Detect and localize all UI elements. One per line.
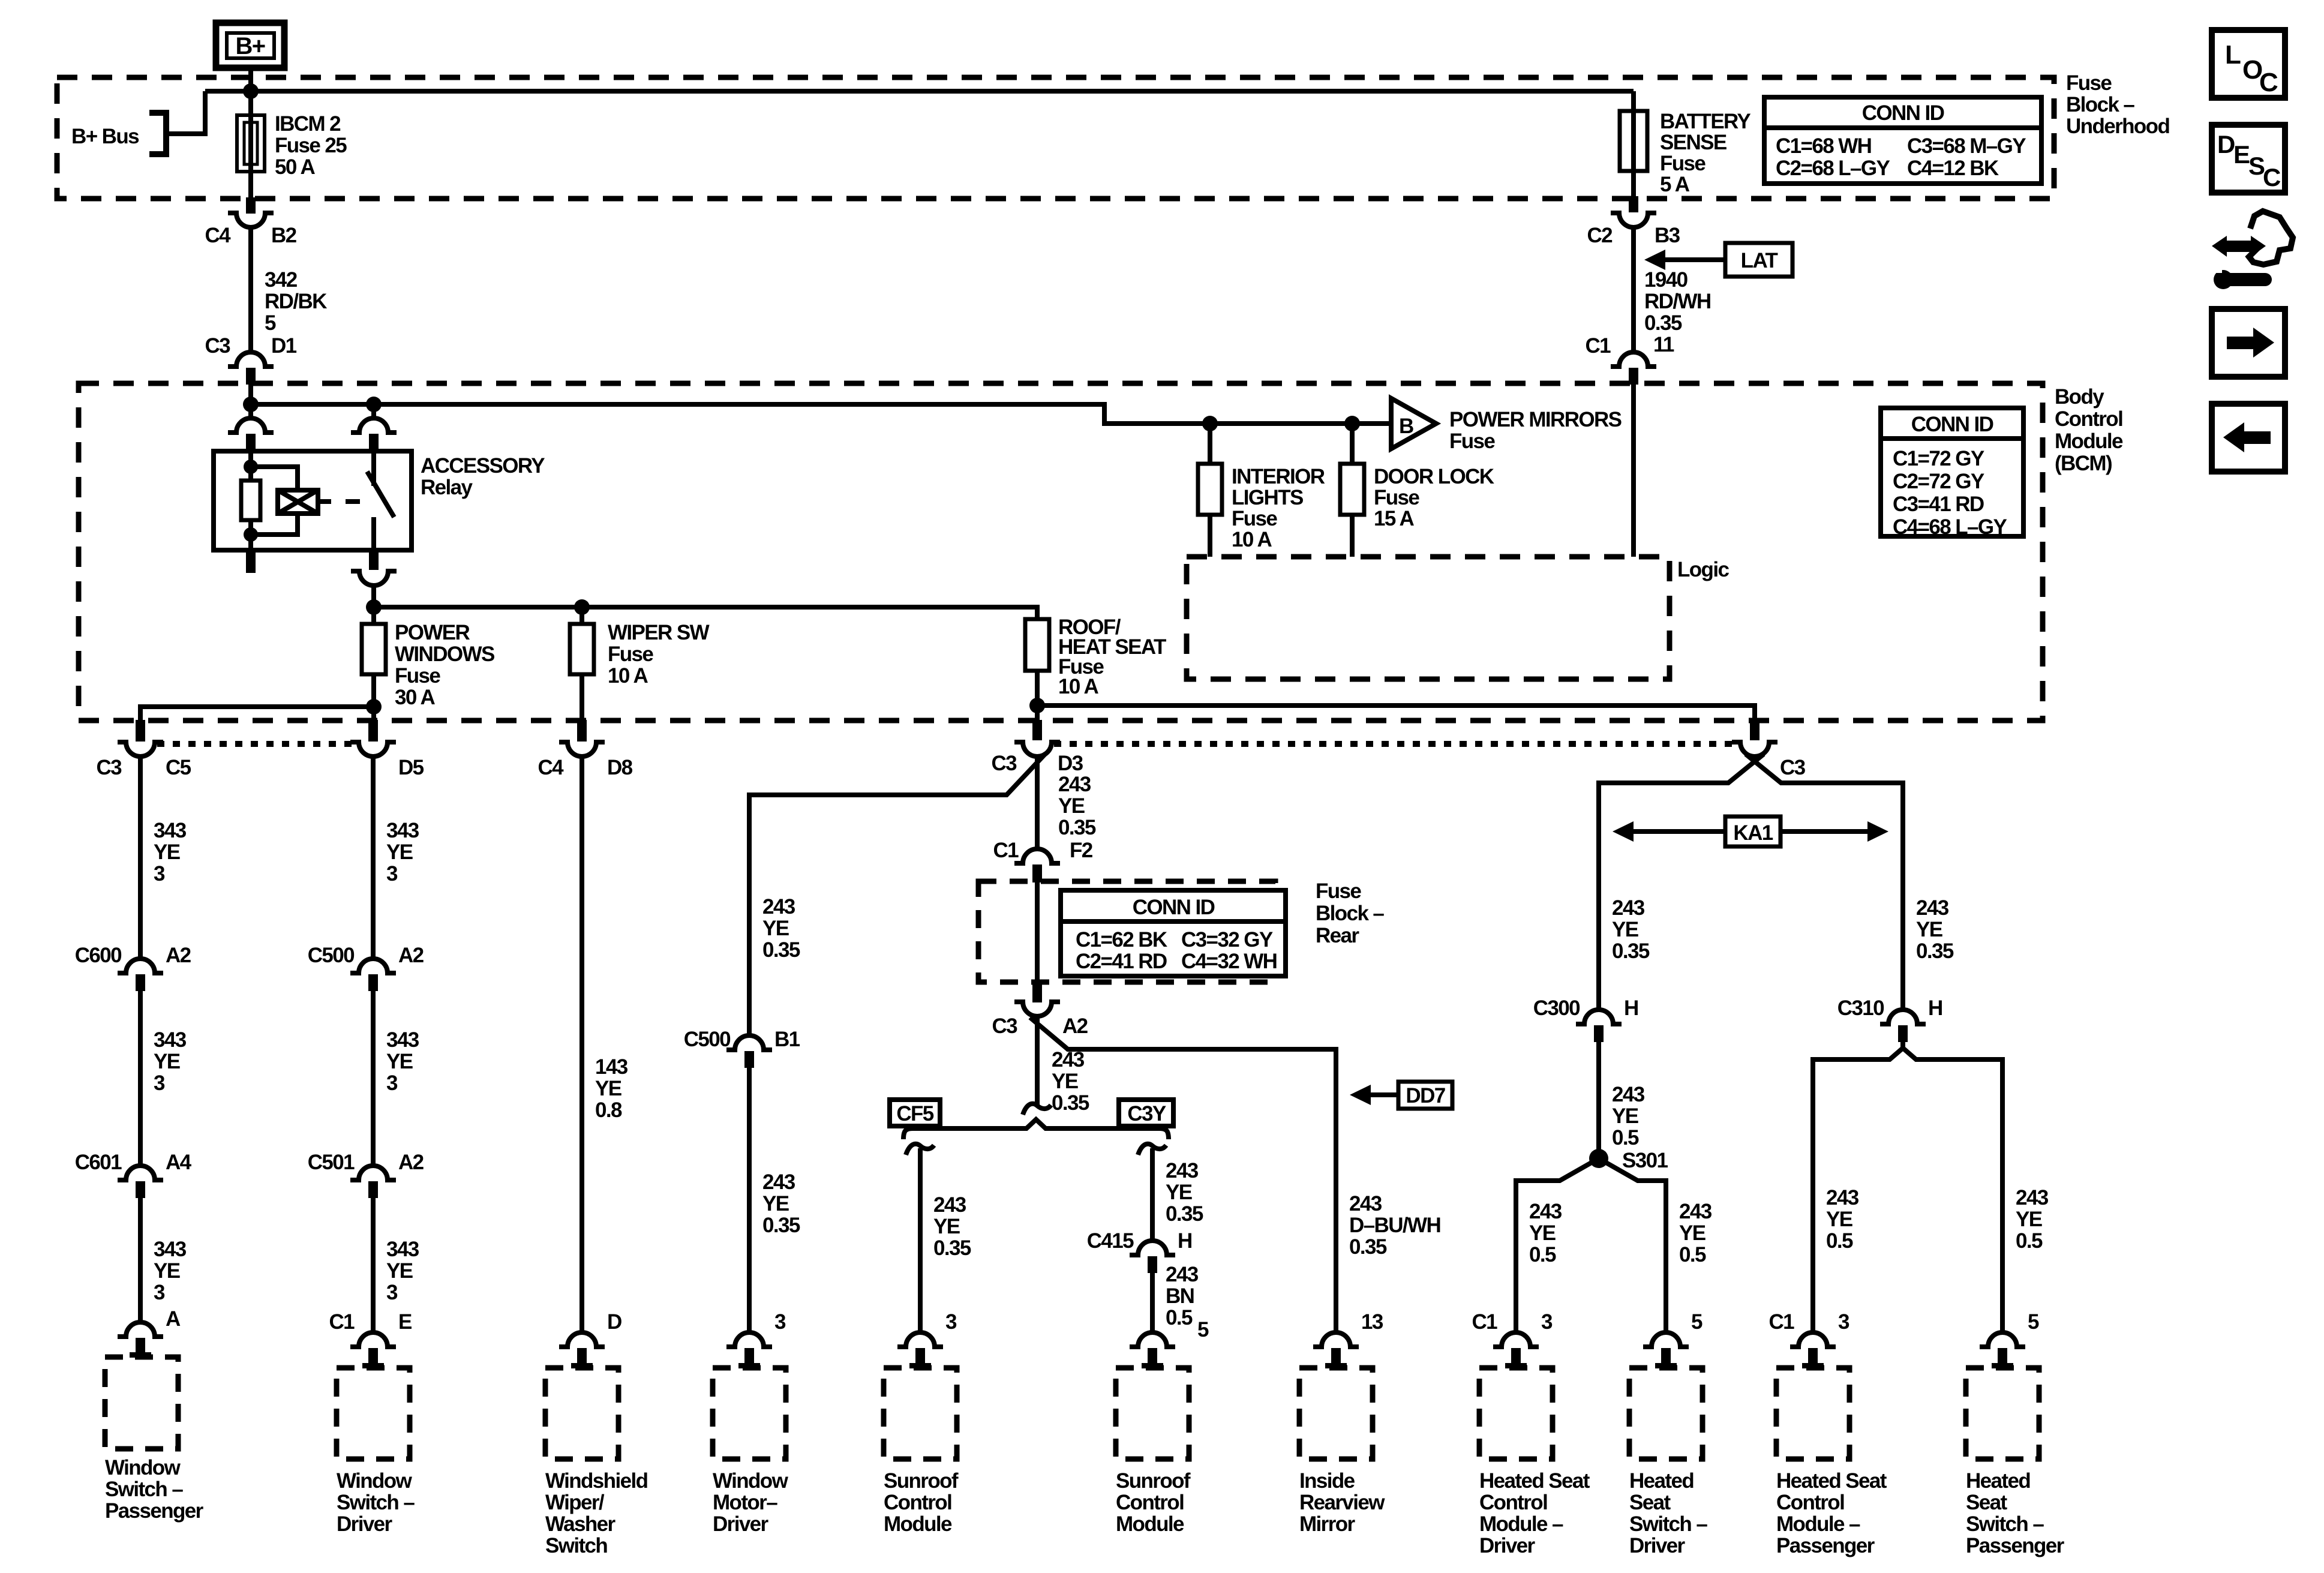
svg-text:3: 3 (154, 1071, 165, 1095)
svg-text:POWER MIRRORS: POWER MIRRORS (1449, 408, 1622, 431)
sunroof control module 1 box (884, 1368, 957, 1459)
relay switch blade (367, 472, 394, 517)
svg-text:WINDOWS: WINDOWS (395, 643, 494, 666)
wire relay coil feed (248, 404, 253, 419)
svg-text:C3: C3 (205, 334, 230, 358)
svg-text:3: 3 (1838, 1310, 1849, 1334)
svg-text:C1: C1 (993, 839, 1019, 862)
wire C310 fork (1813, 1042, 2002, 1334)
wire wiper fuse out (580, 674, 584, 720)
svg-text:YE: YE (1679, 1221, 1706, 1245)
wire roof fuse out (1035, 671, 1040, 720)
wire 343 YE passenger seg3 (138, 1198, 143, 1323)
svg-text:342: 342 (265, 268, 298, 292)
node power windows branch (366, 699, 382, 715)
svg-text:YE: YE (762, 917, 789, 940)
svg-text:30 A: 30 A (395, 686, 436, 709)
KA1 arrow left (1634, 829, 1725, 834)
connector C3/C5 pin stub (136, 720, 145, 742)
svg-text:YE: YE (1916, 918, 1942, 941)
wire sunroof module 2 upper (1150, 1148, 1155, 1241)
splice S301 (1589, 1149, 1608, 1168)
wire 243 YE D3 drop (1035, 757, 1040, 849)
svg-text:A4: A4 (166, 1151, 192, 1174)
connector pin 13 mirror (1313, 1332, 1359, 1347)
svg-text:C2=68 L–GY: C2=68 L–GY (1776, 157, 1890, 180)
svg-text:B: B (1399, 415, 1413, 438)
svg-text:243: 243 (1612, 896, 1645, 920)
svg-text:D8: D8 (607, 756, 633, 779)
svg-text:Window: Window (713, 1469, 789, 1493)
svg-text:C3: C3 (992, 1014, 1017, 1038)
svg-text:YE: YE (386, 1259, 413, 1283)
svg-text:Window: Window (337, 1469, 413, 1493)
wire window motor lower (747, 1068, 752, 1334)
svg-text:WIPER SW: WIPER SW (608, 621, 710, 644)
svg-text:C500: C500 (308, 944, 355, 967)
svg-text:BN: BN (1166, 1284, 1194, 1308)
connector C3/D3 (1014, 742, 1060, 757)
DD7 box (1398, 1082, 1452, 1109)
wire 243 BN sunroof 2 (1150, 1273, 1155, 1334)
connector C601/A4 (118, 1166, 163, 1180)
svg-text:KA1: KA1 (1733, 821, 1773, 845)
icon LOC box (2212, 30, 2285, 98)
svg-text:YE: YE (1612, 1104, 1638, 1128)
svg-text:C4: C4 (205, 224, 231, 247)
svg-text:Fuse: Fuse (1232, 507, 1277, 530)
svg-text:CONN ID: CONN ID (1862, 101, 1944, 125)
connector group dotted link right (1054, 741, 1738, 747)
icon wrench (2214, 270, 2233, 289)
svg-text:C310: C310 (1837, 996, 1884, 1020)
svg-text:3: 3 (1541, 1310, 1553, 1334)
svg-text:Fuse: Fuse (1660, 152, 1706, 175)
window switch passenger box (105, 1357, 178, 1449)
svg-text:C300: C300 (1533, 996, 1580, 1020)
svg-text:Control: Control (884, 1491, 951, 1514)
wire door lock feed (1350, 424, 1355, 464)
wire battery sense drop (1631, 91, 1636, 197)
icon back arrow box (2212, 404, 2285, 472)
wire 243 YE 0.5 to splice (1596, 1042, 1601, 1158)
connector C1/F2 (1014, 849, 1060, 863)
connector C3/D5 pin stub (368, 720, 378, 742)
svg-text:343: 343 (386, 1238, 419, 1261)
inside rearview mirror box (1299, 1368, 1373, 1459)
svg-text:5: 5 (1691, 1310, 1703, 1334)
fuse BATTERY SENSE (1620, 111, 1647, 171)
brace split (903, 1119, 1169, 1139)
connector C300/H (1576, 1010, 1622, 1024)
svg-text:C3: C3 (96, 756, 122, 779)
svg-text:Module: Module (1116, 1512, 1184, 1536)
node interior lights tap (1202, 416, 1218, 431)
svg-text:H: H (1178, 1229, 1192, 1253)
svg-text:0.35: 0.35 (1349, 1235, 1387, 1259)
svg-text:S301: S301 (1622, 1149, 1668, 1172)
svg-text:0.35: 0.35 (1052, 1091, 1089, 1115)
window switch driver box (337, 1368, 410, 1459)
svg-text:C2=41 RD: C2=41 RD (1076, 950, 1167, 973)
svg-text:243: 243 (1529, 1200, 1562, 1223)
wire 343 YE driver seg2 (371, 991, 376, 1166)
connector C600/A2 (118, 959, 163, 973)
wire 143 YE wiper (580, 757, 584, 1334)
svg-text:1940: 1940 (1644, 268, 1688, 292)
heated seat control module passenger box (1776, 1368, 1849, 1459)
svg-text:Sunroof: Sunroof (1116, 1469, 1191, 1493)
svg-text:Driver: Driver (1629, 1534, 1686, 1557)
svg-text:C3: C3 (1780, 756, 1806, 779)
svg-text:Fuse: Fuse (1449, 430, 1495, 453)
svg-text:Driver: Driver (1479, 1534, 1536, 1557)
svg-text:Switch –: Switch – (337, 1491, 415, 1514)
connector C3/C5 (118, 742, 163, 757)
svg-text:3: 3 (386, 1071, 398, 1095)
svg-text:Control: Control (2055, 407, 2122, 431)
svg-text:A2: A2 (1062, 1014, 1088, 1038)
wire relay switch feed (371, 404, 376, 419)
svg-text:5: 5 (2028, 1310, 2039, 1334)
svg-text:343: 343 (386, 819, 419, 842)
svg-text:LIGHTS: LIGHTS (1232, 486, 1303, 509)
CF5 box (890, 1100, 940, 1126)
svg-text:D: D (607, 1310, 621, 1334)
svg-text:Switch –: Switch – (1966, 1512, 2044, 1536)
svg-text:YE: YE (1826, 1208, 1852, 1231)
wire interior lights out (1208, 515, 1212, 557)
svg-text:YE: YE (595, 1077, 621, 1100)
svg-text:243: 243 (762, 895, 795, 918)
svg-text:Block –: Block – (1316, 902, 1384, 925)
svg-text:Underhood: Underhood (2066, 115, 2169, 138)
connector relay coil (228, 418, 274, 433)
svg-text:C4=12 BK: C4=12 BK (1907, 157, 1999, 180)
svg-text:Seat: Seat (1966, 1491, 2007, 1514)
svg-text:3: 3 (386, 862, 398, 885)
svg-text:Motor–: Motor– (713, 1491, 777, 1514)
node roof fuse branch (1029, 698, 1045, 713)
conn id table BCM (1881, 408, 2023, 536)
svg-text:0.35: 0.35 (1058, 816, 1096, 839)
svg-text:C1=62 BK: C1=62 BK (1076, 928, 1167, 951)
connector C3/A2 (1014, 1002, 1060, 1016)
svg-text:0.5: 0.5 (1612, 1126, 1639, 1149)
wire A2 branch to mirror (1030, 1017, 1336, 1334)
wire 343 YE passenger seg2 (138, 991, 143, 1166)
svg-text:Heated Seat: Heated Seat (1776, 1469, 1887, 1493)
wire B+ drop (248, 68, 253, 198)
svg-text:0.8: 0.8 (595, 1098, 622, 1122)
svg-text:YE: YE (154, 840, 180, 864)
relay coil exit stub (246, 550, 256, 573)
connector relay output (351, 571, 397, 586)
svg-text:Fuse: Fuse (608, 643, 653, 666)
connector pin D (559, 1332, 605, 1347)
svg-text:C: C (2263, 163, 2281, 191)
svg-text:Control: Control (1116, 1491, 1184, 1514)
svg-text:Wiper/: Wiper/ (545, 1491, 605, 1514)
svg-text:243: 243 (1826, 1186, 1859, 1209)
connector C2/B3 pin stub (1629, 196, 1638, 212)
wire relay output (371, 586, 376, 624)
svg-text:243: 243 (1166, 1263, 1199, 1286)
connector C3 group dotted link left (157, 741, 356, 747)
svg-text:0.35: 0.35 (1612, 939, 1650, 963)
node bus left (243, 397, 259, 412)
svg-text:C4: C4 (538, 756, 564, 779)
wire battery sense into BCM logic (1631, 385, 1636, 557)
wire power windows fuse out (371, 674, 376, 720)
svg-text:C3=32 GY: C3=32 GY (1181, 928, 1273, 951)
svg-text:Sunroof: Sunroof (884, 1469, 959, 1493)
connector C310/H (1880, 1010, 1926, 1024)
svg-text:0.35: 0.35 (933, 1236, 971, 1260)
svg-text:C4=68 L–GY: C4=68 L–GY (1893, 515, 2007, 539)
connector relay switch (351, 418, 397, 433)
svg-text:0.35: 0.35 (762, 938, 800, 962)
svg-text:D1: D1 (271, 334, 297, 358)
svg-text:243: 243 (1349, 1192, 1382, 1215)
connector pin C1/E (350, 1332, 396, 1347)
node relay coil bottom (244, 527, 258, 542)
svg-text:Module: Module (2055, 430, 2123, 453)
svg-text:B1: B1 (774, 1028, 800, 1051)
wire 343 YE driver seg1 (371, 757, 376, 959)
svg-text:Rear: Rear (1316, 924, 1359, 947)
svg-text:3: 3 (154, 862, 165, 885)
svg-text:Passenger: Passenger (1966, 1534, 2065, 1557)
heated seat switch passenger box (1966, 1368, 2039, 1459)
fuse INTERIOR LIGHTS (1198, 464, 1222, 515)
wire branch to C5 (140, 707, 374, 720)
svg-text:C501: C501 (308, 1151, 355, 1174)
fuse POWER WINDOWS (362, 624, 386, 674)
svg-text:B3: B3 (1655, 224, 1680, 247)
svg-text:0.35: 0.35 (1644, 311, 1682, 335)
svg-text:D–BU/WH: D–BU/WH (1349, 1214, 1440, 1237)
svg-text:(BCM): (BCM) (2055, 452, 2112, 475)
svg-text:D3: D3 (1058, 752, 1083, 775)
icon diagnostic outline (2249, 211, 2293, 265)
wire S301 fork (1516, 1158, 1666, 1334)
wire BCM internal bus (251, 404, 1391, 424)
wire to B+ bus terminal (167, 91, 205, 134)
connector C4/D8 pin stub (577, 720, 587, 742)
wire branch to heated seat C3 (1037, 706, 1755, 720)
svg-text:3: 3 (386, 1281, 398, 1304)
svg-text:5 A: 5 A (1660, 173, 1690, 196)
wire D3 branch to window motor (749, 754, 1046, 1035)
wire B+ bus line (205, 89, 1634, 94)
svg-text:11: 11 (1653, 333, 1674, 356)
svg-text:YE: YE (1612, 918, 1638, 941)
svg-text:Control: Control (1479, 1491, 1547, 1514)
connector C501/A2 (350, 1166, 396, 1180)
svg-text:5: 5 (265, 311, 276, 335)
svg-text:5: 5 (1197, 1318, 1209, 1341)
connector C3/D5 (350, 742, 396, 757)
svg-text:243: 243 (1612, 1083, 1645, 1106)
fuse IBCM 2 Fuse 25 (237, 115, 265, 172)
fuse DOOR LOCK (1340, 464, 1364, 515)
svg-text:C5: C5 (166, 756, 191, 779)
node fuse bus (366, 599, 382, 615)
svg-text:0.35: 0.35 (762, 1214, 800, 1237)
window motor driver box (713, 1368, 786, 1459)
svg-text:Heated: Heated (1629, 1469, 1694, 1493)
svg-text:H: H (1624, 996, 1638, 1020)
fuse WIPER SW (570, 624, 594, 674)
svg-text:Fuse 25: Fuse 25 (275, 134, 347, 157)
svg-text:B+: B+ (235, 33, 265, 59)
svg-text:Fuse: Fuse (395, 664, 440, 688)
svg-text:Passenger: Passenger (1776, 1534, 1875, 1557)
svg-text:10 A: 10 A (608, 664, 648, 688)
connector pin 3 window motor (726, 1332, 772, 1347)
fuse ROOF/HEAT SEAT (1025, 619, 1049, 671)
svg-text:CONN ID: CONN ID (1133, 896, 1215, 919)
svg-text:Switch: Switch (545, 1534, 607, 1557)
wire 342 RD/BK (248, 227, 253, 353)
svg-text:YE: YE (762, 1192, 789, 1215)
connector pin A (118, 1322, 163, 1337)
svg-text:YE: YE (1529, 1221, 1556, 1245)
sunroof control module 2 box (1116, 1368, 1189, 1459)
svg-text:0.35: 0.35 (1916, 939, 1954, 963)
svg-text:A2: A2 (166, 944, 191, 967)
node bus relay switch (366, 397, 382, 412)
node relay coil top (244, 460, 258, 474)
connector heated C3 pin stub (1750, 720, 1759, 740)
heated seat switch driver box (1629, 1368, 1703, 1459)
relay switch contact (371, 451, 376, 486)
svg-text:0.5: 0.5 (1166, 1306, 1193, 1329)
svg-text:YE: YE (154, 1050, 180, 1073)
svg-text:YE: YE (386, 1050, 413, 1073)
connector C415/H (1130, 1241, 1175, 1255)
svg-text:Module: Module (884, 1512, 952, 1536)
svg-text:YE: YE (2016, 1208, 2042, 1231)
svg-text:POWER: POWER (395, 621, 470, 644)
svg-text:243: 243 (2016, 1186, 2049, 1209)
svg-text:Driver: Driver (337, 1512, 393, 1536)
body control module boundary (79, 383, 2043, 721)
svg-text:3: 3 (154, 1281, 165, 1304)
svg-text:Module –: Module – (1776, 1512, 1860, 1536)
svg-text:Switch –: Switch – (1629, 1512, 1707, 1536)
icon diagnostic arrow (2223, 241, 2254, 252)
connector pin 5 heated switch driver (1643, 1332, 1689, 1347)
svg-text:0.5: 0.5 (1529, 1243, 1556, 1266)
node door lock tap (1344, 416, 1360, 431)
svg-text:Fuse: Fuse (1316, 879, 1361, 903)
connector C4/B2 (228, 213, 274, 227)
svg-text:CONN ID: CONN ID (1911, 413, 1993, 436)
svg-text:YE: YE (154, 1259, 180, 1283)
svg-text:Module –: Module – (1479, 1512, 1563, 1536)
svg-text:Switch –: Switch – (105, 1478, 183, 1501)
wire wiper fuse feed (580, 607, 584, 624)
svg-text:15 A: 15 A (1374, 507, 1415, 530)
svg-text:C1: C1 (329, 1310, 355, 1334)
svg-text:RD/BK: RD/BK (265, 290, 327, 313)
B+ terminal box (216, 23, 284, 68)
relay ACCESSORY box (214, 451, 412, 550)
svg-text:343: 343 (154, 819, 187, 842)
connector C500/B1 (726, 1035, 772, 1050)
connector heated C3 (1732, 742, 1777, 757)
svg-text:0.5: 0.5 (1826, 1229, 1853, 1253)
svg-text:Relay: Relay (421, 476, 473, 499)
icon next arrow box (2212, 309, 2285, 377)
power mirrors fuse triangle (1391, 398, 1436, 449)
svg-text:ACCESSORY: ACCESSORY (421, 454, 545, 478)
connector C3/D1 pin stub (246, 368, 256, 385)
svg-text:YE: YE (1052, 1070, 1078, 1093)
connector C4/B2 pin stub (246, 197, 256, 214)
svg-text:C415: C415 (1087, 1229, 1134, 1253)
svg-text:13: 13 (1361, 1310, 1383, 1334)
svg-text:Mirror: Mirror (1299, 1512, 1356, 1536)
svg-text:Windshield: Windshield (545, 1469, 648, 1493)
svg-text:C500: C500 (684, 1028, 731, 1051)
svg-text:C1: C1 (1768, 1310, 1794, 1334)
connector pin 3 sunroof 1 (897, 1332, 943, 1347)
svg-text:C1: C1 (1472, 1310, 1497, 1334)
svg-text:C601: C601 (75, 1151, 122, 1174)
svg-text:Seat: Seat (1629, 1491, 1671, 1514)
wire A2 down to brace (1035, 1016, 1040, 1107)
svg-text:Block –: Block – (2066, 93, 2134, 116)
wire through rear fuse block (1035, 882, 1040, 982)
svg-text:243: 243 (1058, 773, 1091, 796)
wire relay coil loop (251, 467, 298, 535)
wire heated C3 fork (1599, 754, 1903, 1010)
KA1 box (1725, 816, 1780, 846)
wire interior lights feed (1208, 424, 1212, 464)
connector C1/11 (1611, 352, 1656, 367)
svg-text:DOOR LOCK: DOOR LOCK (1374, 465, 1494, 488)
svg-text:A2: A2 (398, 944, 424, 967)
svg-text:C1: C1 (1585, 334, 1611, 358)
svg-text:343: 343 (154, 1028, 187, 1052)
svg-text:Washer: Washer (545, 1512, 616, 1536)
connector C3/A2 pin stub (1032, 982, 1042, 1002)
connector C3/D3 pin stub (1032, 720, 1042, 740)
connector half sunroof feed (1023, 1104, 1051, 1115)
svg-text:A: A (166, 1307, 181, 1331)
svg-text:D: D (2217, 130, 2235, 158)
svg-text:E: E (398, 1310, 412, 1334)
svg-text:C3: C3 (991, 752, 1017, 775)
svg-text:SENSE: SENSE (1660, 131, 1727, 154)
connector pin C1/3 heated control driver (1493, 1332, 1539, 1347)
conn id table rear (1061, 890, 1286, 976)
svg-text:D5: D5 (398, 756, 424, 779)
wire solenoid link (318, 499, 331, 504)
relay switch exit stub (369, 550, 379, 570)
svg-text:Passenger: Passenger (105, 1499, 204, 1523)
svg-text:Driver: Driver (713, 1512, 769, 1536)
svg-text:243: 243 (762, 1170, 795, 1194)
svg-text:C600: C600 (75, 944, 122, 967)
svg-text:C3=68 M–GY: C3=68 M–GY (1907, 134, 2026, 158)
relay switch lower contact (371, 517, 376, 550)
svg-text:C3Y: C3Y (1127, 1102, 1166, 1125)
svg-text:INTERIOR: INTERIOR (1232, 465, 1325, 488)
